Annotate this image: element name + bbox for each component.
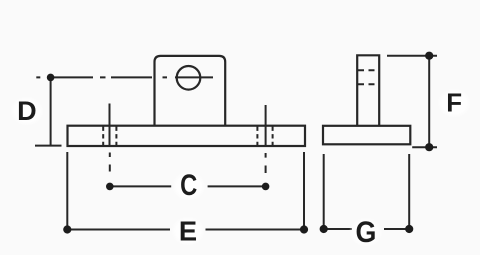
dimension D <box>50 77 52 145</box>
lug hole <box>177 66 201 90</box>
svg-text:E: E <box>179 216 197 247</box>
dimension C extension (dashed centerline continuations) <box>109 153 111 172</box>
dimension G extensions <box>324 154 410 229</box>
hidden bolt-hole left (front view) <box>103 127 116 146</box>
base plate (front view) <box>68 126 306 146</box>
svg-text:C: C <box>180 169 197 202</box>
horizontal hole centerline (dash-dot through lug hole) <box>36 76 213 78</box>
label halos <box>10 88 471 247</box>
svg-text:G: G <box>355 215 376 248</box>
lug (side view) <box>357 55 379 126</box>
dimension E line <box>67 229 304 231</box>
dimension F <box>387 55 437 57</box>
dimension E extensions <box>67 152 304 230</box>
base plate (side view) <box>323 126 410 145</box>
hidden hole lines in side-view lug <box>358 70 378 84</box>
dimension C line <box>110 185 266 187</box>
dimension dots <box>47 52 434 234</box>
svg-text:D: D <box>17 96 37 126</box>
svg-text:F: F <box>446 90 462 118</box>
left hole centerline <box>109 104 111 147</box>
right hole centerline <box>265 105 267 146</box>
dimension G line <box>324 228 410 230</box>
mounting lug (front view) <box>155 56 226 126</box>
hidden bolt-hole right (front view) <box>257 127 272 146</box>
